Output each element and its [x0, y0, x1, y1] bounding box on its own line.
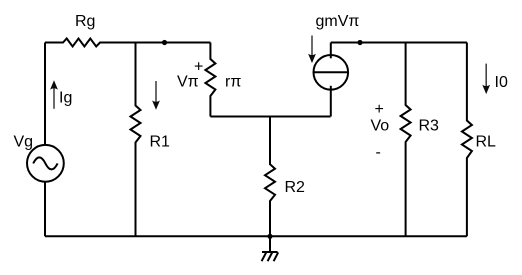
svg-text:gmVπ: gmVπ	[316, 13, 360, 30]
svg-text:R2: R2	[285, 179, 306, 196]
svg-text:I0: I0	[495, 74, 508, 91]
svg-text:R3: R3	[419, 117, 440, 134]
svg-text:R1: R1	[150, 134, 171, 151]
svg-text:RL: RL	[476, 134, 497, 151]
svg-text:Ig: Ig	[59, 90, 72, 107]
svg-text:-: -	[376, 144, 381, 161]
svg-text:Vo: Vo	[371, 117, 390, 134]
svg-text:Rg: Rg	[75, 13, 95, 30]
svg-text:rπ: rπ	[225, 74, 241, 91]
svg-text:Vg: Vg	[14, 133, 34, 150]
svg-text:+: +	[375, 101, 384, 118]
svg-text:Vπ: Vπ	[177, 74, 199, 91]
